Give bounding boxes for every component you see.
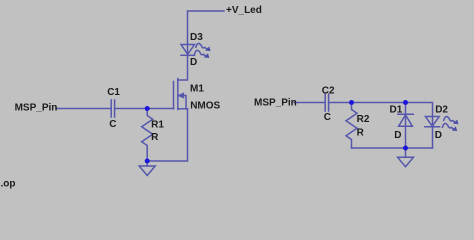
wire D1 node to D2 [406,103,433,127]
junction dots [145,100,408,164]
resistor R1 [142,109,153,162]
LED D2 [425,117,459,149]
ground left [139,161,155,176]
svg-text:R2: R2 [357,114,370,125]
svg-text:R1: R1 [151,119,164,130]
node D1 bottom junction [403,146,408,151]
wire M1 source down and left to ground node [147,109,187,161]
svg-text:.op: .op [1,178,16,189]
wire MSP_Pin to C1 [56,108,111,110]
ground right [398,148,414,167]
wire gate node to M1 gate [147,108,173,110]
svg-text:C1: C1 [107,87,120,98]
svg-text:D1: D1 [390,104,403,115]
svg-text:MSP_Pin: MSP_Pin [15,103,58,114]
svg-text:R: R [151,132,159,143]
svg-text:C: C [109,119,116,130]
wire R2 node to D1 node [352,102,406,104]
svg-text:R: R [357,127,365,138]
svg-text:C: C [324,112,331,123]
svg-text:D2: D2 [435,104,448,115]
capacitor C2 [325,94,328,111]
node D1 top junction [403,100,408,105]
node gate/R1 junction [145,106,150,111]
svg-text:D: D [190,57,197,68]
svg-text:M1: M1 [190,84,204,95]
diode D1 [398,103,413,149]
svg-text:D: D [435,130,442,141]
svg-text:C2: C2 [322,85,335,96]
wire D3 cathode to M1 drain [178,55,188,80]
svg-text:D3: D3 [190,32,203,43]
wire +V_Led top horizontal [188,11,225,55]
wire C2 to R2 node [329,102,352,104]
bottom wire right circuit [352,147,433,149]
node C2/R2 junction [349,100,354,105]
capacitor C1 [111,100,114,117]
svg-text:MSP_Pin: MSP_Pin [254,98,297,109]
svg-text:D: D [394,130,401,141]
transistor M1 [174,79,188,110]
LED D3 [181,43,211,58]
svg-text:+V_Led: +V_Led [226,5,262,16]
svg-text:NMOS: NMOS [190,101,220,112]
resistor R2 [346,103,357,149]
node R1 bottom junction [145,159,150,164]
wire MSP_Pin right to C2 [294,102,325,104]
wire C1 to gate node [115,108,148,110]
